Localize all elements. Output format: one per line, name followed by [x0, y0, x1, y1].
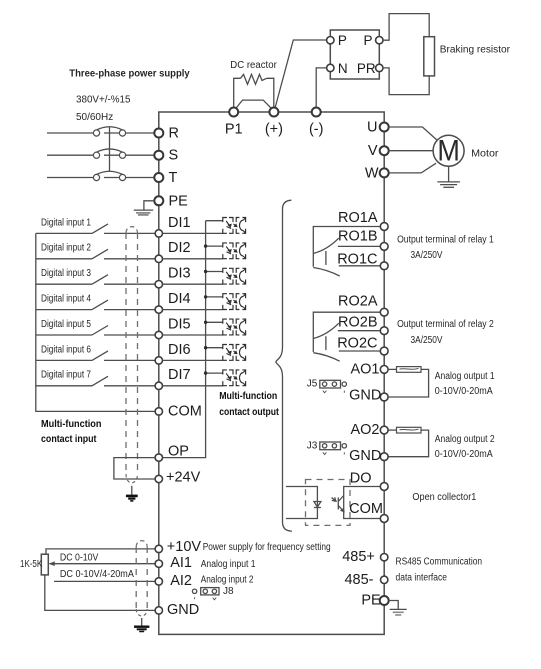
terminal DI5	[155, 331, 162, 338]
open collector transistor side	[332, 487, 381, 519]
braking unit terminal N	[327, 64, 334, 71]
svg-text:3A/250V: 3A/250V	[411, 250, 443, 261]
svg-text:RO1B: RO1B	[338, 229, 378, 245]
svg-text:Braking resistor: Braking resistor	[440, 45, 511, 56]
optocoupler DI1	[163, 218, 246, 234]
svg-text:RS485 Communication: RS485 Communication	[396, 557, 483, 568]
brace grouping output terminals	[276, 200, 292, 531]
terminal +24V	[155, 475, 162, 482]
terminal AO1	[380, 366, 388, 374]
svg-text:Digital input 7: Digital input 7	[41, 370, 91, 381]
svg-text:DO: DO	[350, 470, 372, 486]
svg-text:W: W	[365, 165, 379, 181]
DC reactor zigzag	[241, 74, 267, 84]
svg-text:Analog output 2: Analog output 2	[435, 434, 495, 445]
svg-text:DI2: DI2	[168, 240, 191, 256]
terminal RO2B	[380, 327, 388, 335]
terminal DI6	[155, 357, 162, 364]
breaker QF mechanical tie	[109, 127, 111, 172]
svg-text:+10V: +10V	[167, 539, 202, 555]
svg-text:DC 0-10V/4-20mA: DC 0-10V/4-20mA	[60, 569, 134, 580]
wire jumper OP to +24V	[114, 458, 155, 479]
switch S1 blade	[92, 224, 108, 234]
digital input common bus (left)	[36, 233, 155, 411]
svg-text:AO1: AO1	[350, 361, 379, 377]
open collector optocoupler dashed box	[306, 480, 351, 526]
svg-text:PE: PE	[169, 193, 189, 209]
terminal T	[154, 173, 163, 182]
terminal COM (DO)	[380, 515, 388, 523]
svg-text:Digital input 3: Digital input 3	[41, 268, 91, 279]
analog meter 1	[388, 367, 429, 397]
terminal RO1C	[380, 262, 388, 270]
ground at motor	[437, 166, 460, 187]
svg-text:Digital input 2: Digital input 2	[41, 243, 91, 254]
svg-text:J8: J8	[223, 586, 234, 597]
svg-text:Analog input 1: Analog input 1	[201, 559, 256, 570]
terminal RO1A	[380, 223, 388, 231]
terminal RO1B	[380, 243, 388, 251]
potentiometer 1K-5K	[41, 554, 48, 575]
svg-text:M: M	[437, 135, 460, 168]
svg-text:AI1: AI1	[170, 555, 192, 571]
svg-text:Analog input 2: Analog input 2	[201, 575, 254, 586]
svg-text:data interface: data interface	[396, 572, 448, 583]
terminal PE output	[380, 596, 389, 605]
wire S contact to terminal	[104, 154, 159, 156]
terminal DI1	[155, 230, 162, 237]
optocoupler DI2	[163, 243, 246, 259]
analog meter 2	[388, 427, 429, 456]
braking resistor body	[424, 37, 435, 76]
terminal RO2C	[380, 347, 388, 355]
terminal W	[380, 168, 389, 177]
terminal AI1	[155, 560, 162, 567]
svg-text:0-10V/0-20mA: 0-10V/0-20mA	[435, 449, 493, 460]
ground at PE input	[134, 201, 155, 215]
svg-text:R: R	[169, 126, 179, 142]
wire S phase lead	[47, 154, 93, 156]
terminal AI2	[155, 578, 162, 585]
svg-text:OP: OP	[168, 443, 189, 459]
breaker QF contact circles S	[93, 152, 99, 158]
svg-text:RO2C: RO2C	[337, 336, 377, 352]
terminal DI7	[155, 382, 162, 389]
svg-text:DI4: DI4	[168, 291, 191, 307]
terminal GND (AO1)	[380, 393, 388, 401]
DC reactor loop wiring	[234, 78, 241, 111]
wire R phase lead	[47, 132, 93, 134]
svg-text:Digital input 5: Digital input 5	[41, 319, 91, 330]
svg-text:U: U	[367, 120, 377, 136]
svg-text:J3: J3	[307, 440, 318, 451]
svg-text:Power supply for frequency set: Power supply for frequency setting	[203, 542, 331, 553]
ground at digital cable shield	[126, 486, 138, 501]
wire potentiometer wiper to AI1	[53, 563, 156, 565]
svg-text:Three-phase power supply: Three-phase power supply	[69, 69, 190, 80]
terminal U	[380, 123, 389, 132]
optocoupler DI5	[163, 319, 246, 335]
svg-text:S: S	[169, 148, 179, 164]
terminal P1	[229, 108, 238, 117]
jumper J8	[192, 588, 219, 600]
svg-text:Analog output 1: Analog output 1	[435, 371, 495, 382]
svg-text:380V+/-%15: 380V+/-%15	[76, 95, 131, 106]
terminal DI3	[155, 281, 162, 288]
svg-text:3A/250V: 3A/250V	[411, 335, 443, 346]
wire T phase lead	[47, 177, 93, 179]
terminal DI4	[155, 306, 162, 313]
svg-text:Output terminal of relay 1: Output terminal of relay 1	[397, 235, 494, 246]
wire AI2 lead	[54, 580, 155, 582]
svg-text:DI1: DI1	[168, 215, 191, 231]
svg-text:DI3: DI3	[168, 266, 191, 282]
switch S3 blade and wires	[36, 283, 92, 285]
braking unit terminal P right	[376, 37, 383, 44]
terminal V	[380, 146, 389, 155]
wire PR to braking resistor bottom	[383, 68, 429, 95]
terminal AO2	[380, 426, 388, 434]
wire U to motor	[389, 127, 437, 140]
optocoupler DI7	[163, 370, 246, 386]
svg-text:RO2B: RO2B	[338, 315, 378, 331]
wire W to motor	[389, 163, 436, 173]
svg-text:GND: GND	[349, 448, 381, 464]
svg-text:T: T	[169, 170, 178, 186]
wire R contact to terminal	[104, 132, 159, 134]
svg-text:485+: 485+	[342, 549, 375, 565]
svg-text:PE: PE	[361, 593, 381, 609]
svg-text:contact output: contact output	[219, 406, 279, 418]
breaker QF contact circles R	[93, 130, 99, 136]
svg-text:DC reactor: DC reactor	[230, 60, 277, 71]
terminal 485+	[381, 554, 388, 561]
opto common bus to OP	[163, 221, 206, 458]
terminal DO	[380, 483, 388, 491]
terminal R	[154, 129, 163, 138]
svg-text:AI2: AI2	[170, 573, 192, 589]
terminal 485-	[381, 576, 388, 583]
terminal RO2A	[380, 308, 388, 316]
breaker QF contact circles T	[93, 174, 99, 180]
svg-text:J5: J5	[307, 379, 318, 390]
switch S7 blade and wires	[36, 385, 92, 387]
svg-text:DI6: DI6	[168, 342, 191, 358]
svg-text:DI7: DI7	[168, 367, 191, 383]
optocoupler DI3	[163, 268, 246, 284]
svg-text:DI5: DI5	[168, 316, 191, 332]
breaker QF pole T arc	[97, 171, 123, 174]
ground at PE output	[389, 601, 407, 616]
svg-text:contact input: contact input	[41, 433, 97, 445]
switch S2 blade and wires	[36, 258, 92, 260]
svg-text:Motor: Motor	[471, 149, 499, 160]
svg-text:Digital input 4: Digital input 4	[41, 294, 91, 305]
terminal GND (analog)	[155, 607, 162, 614]
terminal S	[154, 151, 163, 160]
shield screen of digital input cable	[126, 227, 138, 233]
svg-text:(+): (+)	[265, 122, 283, 138]
svg-text:485-: 485-	[344, 572, 373, 588]
svg-text:COM: COM	[168, 403, 202, 419]
wire (+) to braking unit P	[275, 40, 327, 110]
svg-text:P: P	[363, 33, 372, 48]
svg-text:GND: GND	[349, 388, 381, 404]
svg-text:GND: GND	[167, 602, 199, 618]
braking unit terminal P left	[327, 37, 334, 44]
svg-text:V: V	[368, 143, 378, 159]
terminal COM	[155, 408, 162, 415]
breaker QF pole S arc	[97, 149, 123, 152]
svg-text:(-): (-)	[309, 122, 324, 138]
svg-text:Multi-function: Multi-function	[41, 418, 102, 430]
svg-text:P1: P1	[225, 122, 243, 138]
svg-text:Multi-function: Multi-function	[219, 390, 277, 402]
braking unit box	[330, 30, 379, 79]
svg-text:Output terminal of relay 2: Output terminal of relay 2	[397, 319, 494, 330]
terminal (+)	[269, 108, 278, 117]
svg-text:DC 0-10V: DC 0-10V	[60, 553, 99, 564]
svg-text:+24V: +24V	[166, 470, 201, 486]
svg-text:P: P	[338, 33, 347, 48]
switch S1 wire left	[36, 232, 92, 234]
relay RO2 contact	[313, 312, 380, 361]
switch S5 blade and wires	[36, 334, 92, 336]
svg-text:AO2: AO2	[350, 422, 379, 438]
wire P to braking resistor top	[383, 14, 429, 41]
svg-text:Open collector1: Open collector1	[412, 492, 476, 503]
ground at analog cable shield	[134, 618, 149, 632]
svg-text:PR: PR	[357, 61, 376, 76]
braking unit terminal PR	[376, 64, 383, 71]
switch S1 wire right	[104, 232, 155, 234]
svg-text:RO1C: RO1C	[337, 251, 377, 267]
terminal (-)	[312, 108, 321, 117]
open collector LED side	[286, 487, 321, 519]
svg-text:50/60Hz: 50/60Hz	[76, 112, 113, 123]
svg-text:RO1A: RO1A	[338, 210, 378, 226]
terminal PE input	[154, 196, 163, 205]
svg-text:RO2A: RO2A	[338, 294, 378, 310]
wiper arrow	[48, 561, 55, 566]
svg-text:0-10V/0-20mA: 0-10V/0-20mA	[435, 386, 493, 397]
terminal GND (AO2)	[380, 453, 388, 461]
optocoupler DI4	[163, 294, 246, 310]
svg-text:COM: COM	[349, 501, 383, 517]
wire V to motor	[389, 150, 433, 152]
terminal DI2	[155, 255, 162, 262]
optocoupler DI6	[163, 345, 246, 361]
shield screen of analog cable	[136, 541, 147, 547]
svg-text:1K-5K: 1K-5K	[20, 559, 42, 570]
wire potentiometer bottom to GND	[45, 575, 155, 611]
svg-text:Digital input 1: Digital input 1	[41, 217, 91, 228]
wire T contact to terminal	[104, 177, 159, 179]
switch S6 blade and wires	[36, 359, 92, 361]
jumper bar P1 to (+)	[235, 100, 273, 110]
wire +10V to potentiometer top	[46, 549, 155, 554]
breaker QF pole R arc	[97, 127, 123, 130]
svg-text:N: N	[338, 61, 348, 76]
wire (-) to braking unit N	[316, 68, 326, 111]
relay RO1 contact	[313, 227, 380, 277]
inverter main body box	[159, 112, 384, 634]
terminal OP	[155, 454, 162, 461]
svg-text:Digital input 6: Digital input 6	[41, 344, 91, 355]
terminal +10V	[155, 545, 162, 552]
motor M	[433, 135, 464, 166]
switch S4 blade and wires	[36, 309, 92, 311]
